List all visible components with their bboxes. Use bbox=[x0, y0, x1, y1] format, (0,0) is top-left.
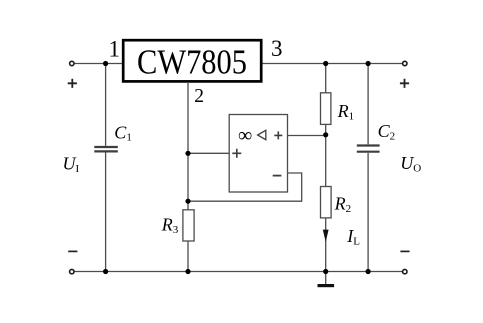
svg-text:∞: ∞ bbox=[238, 124, 252, 146]
svg-text:2: 2 bbox=[194, 86, 204, 107]
svg-text:CW7805: CW7805 bbox=[137, 44, 247, 82]
svg-text:1: 1 bbox=[109, 36, 121, 61]
svg-text:3: 3 bbox=[271, 36, 283, 61]
